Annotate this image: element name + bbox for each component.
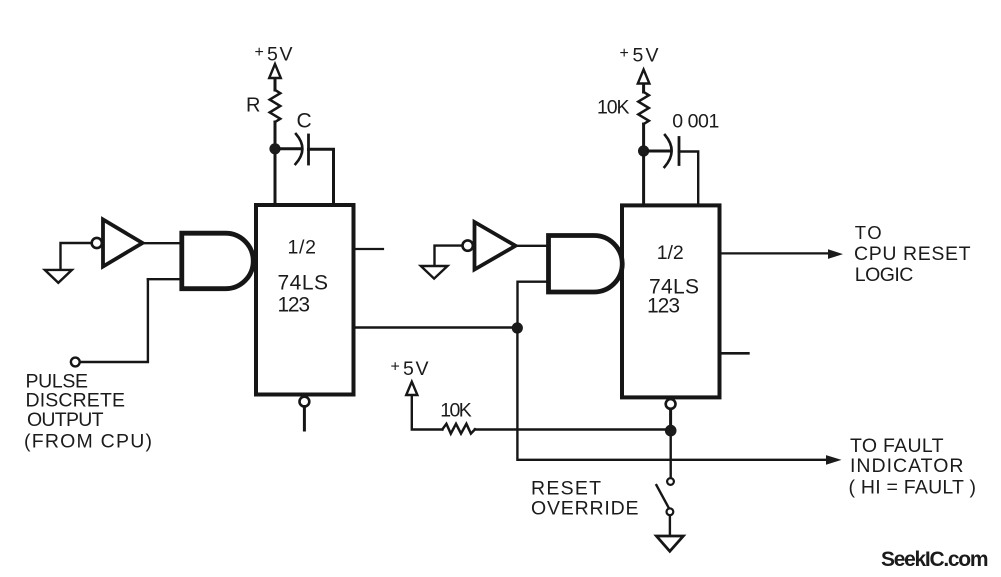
svg-text:10K: 10K [597, 97, 631, 119]
svg-text:CPU RESET: CPU RESET [854, 243, 972, 265]
svg-text:R: R [246, 95, 262, 117]
svg-text:+: + [255, 44, 266, 61]
svg-text:+: + [620, 45, 631, 62]
svg-text:74LS: 74LS [278, 272, 330, 295]
svg-text:INDICATOR: INDICATOR [850, 455, 965, 477]
svg-text:5V: 5V [267, 44, 294, 66]
svg-text:(FROM CPU): (FROM CPU) [24, 431, 154, 453]
svg-text:TO FAULT: TO FAULT [850, 435, 945, 457]
svg-text:0 001: 0 001 [672, 110, 721, 132]
svg-text:123: 123 [647, 295, 682, 318]
svg-text:( HI = FAULT ): ( HI = FAULT ) [849, 477, 978, 499]
svg-text:OVERRIDE: OVERRIDE [531, 498, 640, 520]
svg-text:C: C [297, 110, 314, 133]
svg-text:TO: TO [855, 222, 883, 243]
svg-text:5V: 5V [633, 45, 661, 67]
svg-text:RESET: RESET [531, 478, 603, 500]
svg-text:10K: 10K [440, 400, 473, 422]
svg-text:5V: 5V [403, 358, 430, 380]
svg-text:OUTPUT: OUTPUT [27, 409, 105, 431]
svg-text:LOGIC: LOGIC [855, 264, 915, 286]
svg-text:SeekIC.com: SeekIC.com [881, 548, 990, 571]
svg-text:123: 123 [278, 294, 312, 317]
svg-text:+: + [391, 359, 402, 376]
svg-text:1/2: 1/2 [288, 237, 318, 259]
svg-text:1/2: 1/2 [657, 242, 686, 264]
